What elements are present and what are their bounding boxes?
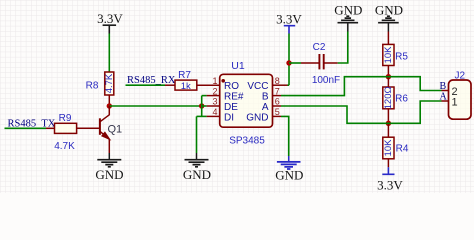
ground (below DI) [183, 153, 211, 182]
wire 3.3V to R8 [108, 34, 110, 73]
svg-text:Q1: Q1 [108, 124, 123, 136]
svg-text:GND: GND [275, 168, 303, 183]
connector J2 [449, 70, 472, 119]
svg-text:GND: GND [375, 3, 403, 18]
svg-text:3.3V: 3.3V [276, 11, 302, 26]
node DE junction [199, 103, 204, 108]
svg-text:U1: U1 [231, 60, 245, 72]
node B junction [386, 74, 391, 79]
wire B net [273, 95, 282, 97]
wire DE stub [202, 105, 207, 107]
svg-text:C2: C2 [313, 42, 326, 53]
wire GND pin5 [273, 115, 282, 117]
power 3.3V (bottom) [377, 167, 403, 192]
resistor R6 [383, 86, 409, 109]
wire R7 to pin1 [197, 84, 220, 86]
wire DE net horizontal [109, 105, 201, 107]
svg-text:DE: DE [224, 102, 238, 113]
node VCC junction [286, 60, 291, 65]
ground (top, R5) [375, 3, 403, 32]
svg-text:4.7K: 4.7K [104, 73, 115, 93]
svg-text:R6: R6 [395, 94, 408, 105]
svg-text:7: 7 [275, 86, 280, 96]
svg-text:RE#: RE# [224, 92, 244, 103]
svg-text:1: 1 [452, 96, 458, 108]
wire VCC vertical [288, 34, 290, 86]
svg-text:R8: R8 [86, 81, 99, 92]
svg-text:J2: J2 [455, 70, 466, 81]
svg-text:R9: R9 [59, 113, 72, 124]
wire junction to C2 [289, 62, 301, 64]
wire R4 to power [387, 159, 389, 168]
svg-text:A: A [440, 92, 448, 103]
transistor Q1 [100, 106, 122, 153]
svg-text:RO: RO [224, 81, 239, 92]
resistor R4 [383, 137, 409, 159]
ground (below Q1) [95, 153, 123, 182]
ground (below pin5, blue) [275, 156, 303, 183]
wire DI to ground [196, 116, 198, 153]
svg-text:B: B [262, 92, 269, 103]
svg-text:8: 8 [275, 76, 280, 86]
wire R6 to junction [387, 109, 389, 124]
svg-text:1k: 1k [181, 81, 191, 92]
svg-text:5: 5 [275, 107, 280, 117]
wire C2 right [324, 62, 338, 64]
svg-text:GND: GND [334, 3, 362, 18]
wire R8 to junction [108, 95, 110, 106]
wire junction to R6 [387, 77, 389, 87]
wire pin8 stub [273, 84, 288, 86]
svg-text:DI: DI [224, 112, 234, 123]
svg-text:1: 1 [212, 76, 217, 86]
svg-text:GND: GND [95, 167, 123, 182]
wire RE# stub [202, 95, 207, 97]
resistor R9 [54, 113, 76, 152]
wire A net [273, 105, 282, 107]
svg-text:4: 4 [212, 107, 217, 117]
resistor R8 [86, 72, 115, 95]
capacitor C2 [312, 42, 340, 86]
svg-text:10K: 10K [383, 46, 394, 64]
node collector junction [107, 103, 112, 108]
svg-text:2: 2 [212, 86, 217, 96]
svg-text:100nF: 100nF [312, 75, 340, 86]
node A junction [386, 121, 391, 126]
svg-text:3.3V: 3.3V [377, 177, 403, 192]
svg-text:SP3485: SP3485 [229, 135, 265, 146]
svg-text:R5: R5 [395, 52, 408, 63]
svg-text:GND: GND [246, 112, 268, 123]
power 3.3V (top middle) [276, 11, 302, 33]
svg-text:3: 3 [212, 97, 217, 107]
wire DI row [197, 115, 207, 117]
svg-text:A: A [262, 102, 269, 113]
wire RE#/DE/DI vertical [201, 96, 203, 117]
wire junction to R4 [387, 123, 389, 137]
wire TX [5, 127, 47, 129]
op IC U1 SP3485 [212, 60, 279, 146]
wire R9 to base [77, 127, 100, 129]
resistor R5 [383, 44, 409, 65]
wire R5 to junction [387, 66, 389, 77]
svg-text:R4: R4 [396, 144, 409, 155]
svg-text:120Ω: 120Ω [383, 86, 394, 109]
svg-text:6: 6 [275, 97, 280, 107]
pin 1 marker dot [221, 79, 225, 83]
wire GND to R5 [387, 32, 389, 45]
svg-text:10K: 10K [383, 139, 394, 157]
ground (top, C2) [334, 3, 362, 32]
svg-text:RS485_RX: RS485_RX [127, 75, 176, 86]
svg-text:4.7K: 4.7K [54, 141, 75, 152]
svg-text:GND: GND [183, 167, 211, 182]
power 3.3V (top left) [97, 11, 123, 34]
svg-text:3.3V: 3.3V [97, 11, 123, 26]
wire RX [126, 84, 166, 86]
svg-text:R7: R7 [178, 70, 191, 81]
svg-text:VCC: VCC [247, 81, 268, 92]
svg-text:B: B [440, 81, 447, 92]
resistor R7 [175, 70, 197, 92]
